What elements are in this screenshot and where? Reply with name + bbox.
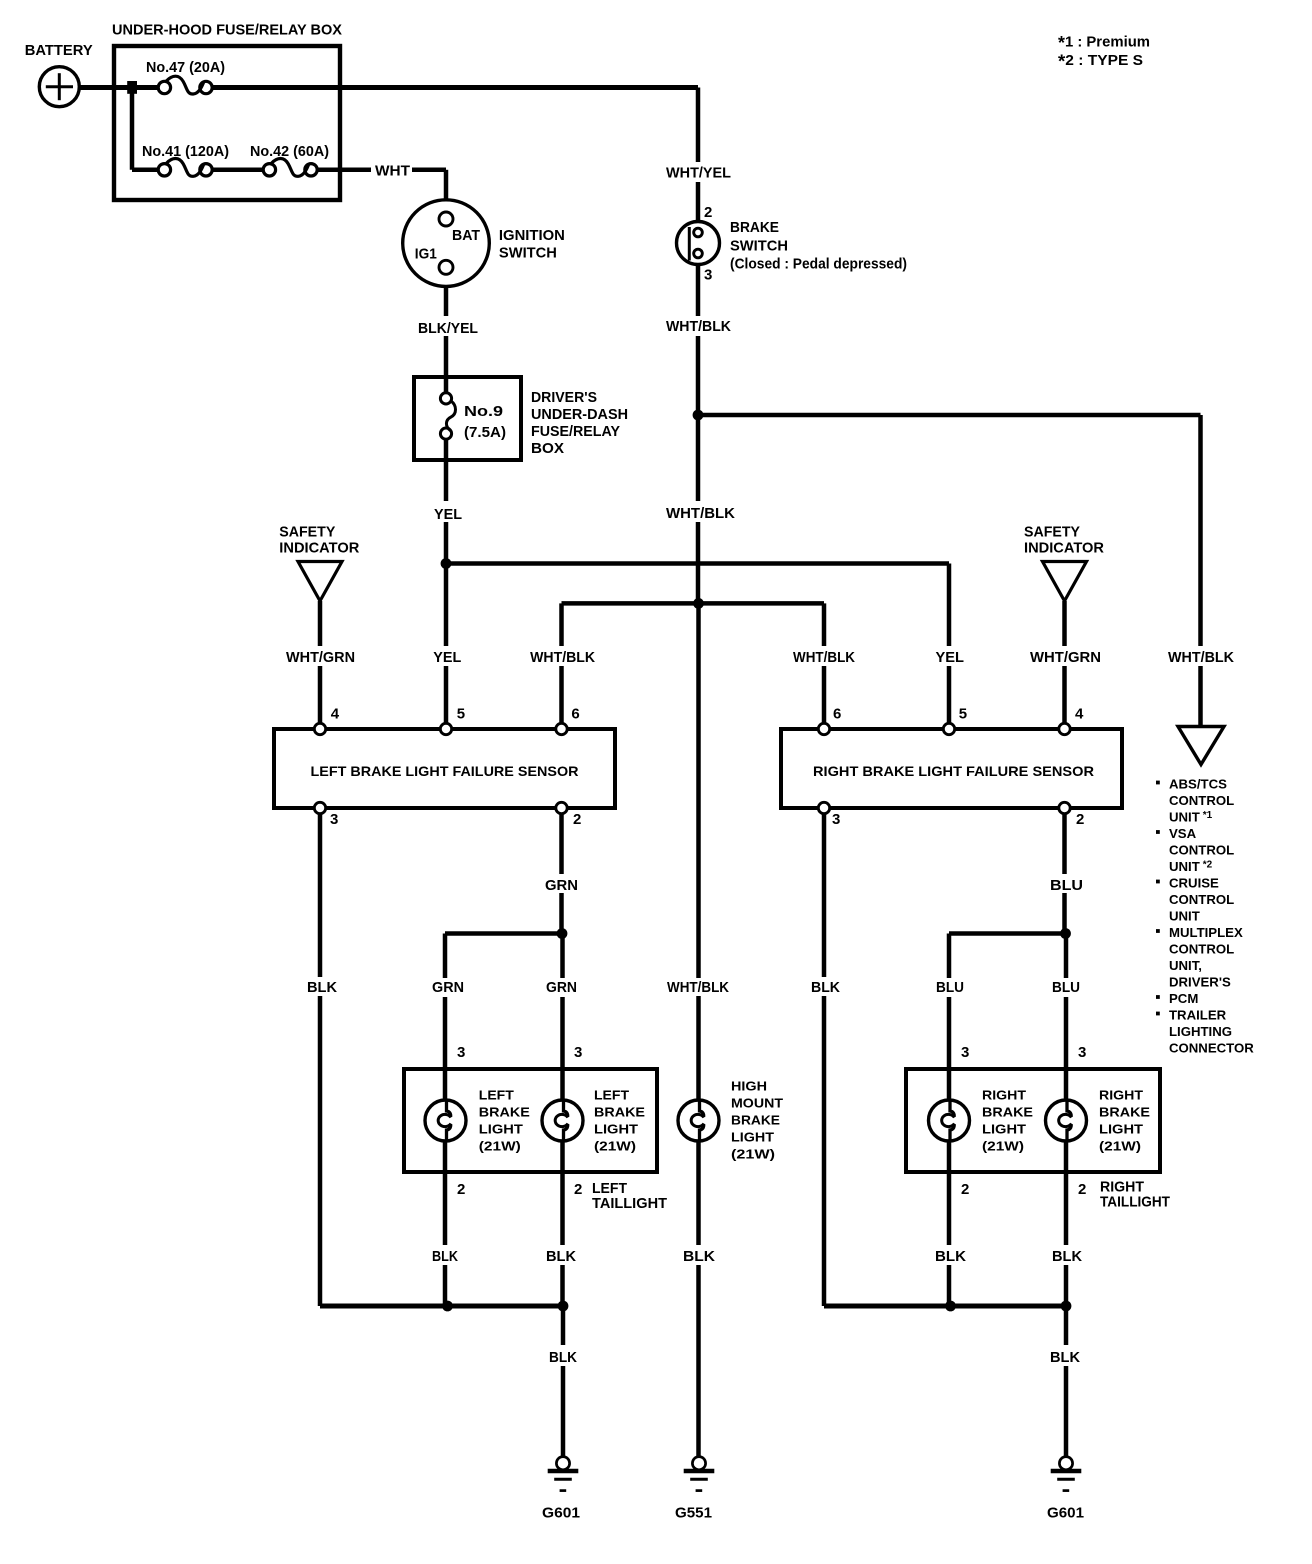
wire fuse No.41 to fuse No.42	[212, 168, 263, 173]
svg-text:LIGHT: LIGHT	[1099, 1122, 1143, 1137]
svg-text:CONTROL: CONTROL	[1169, 942, 1234, 957]
svg-text:RIGHT: RIGHT	[1099, 1088, 1143, 1103]
svg-text:TRAILER: TRAILER	[1169, 1008, 1227, 1023]
svg-text:BLK: BLK	[683, 1248, 715, 1265]
svg-text:BLK: BLK	[811, 979, 840, 996]
wire GRN left sensor pin 2	[559, 814, 564, 874]
svg-text:FUSE/RELAY: FUSE/RELAY	[531, 423, 620, 440]
svg-text:BLU: BLU	[1050, 877, 1083, 894]
svg-text:3: 3	[574, 1044, 582, 1061]
terminal pin 6 left	[556, 723, 567, 734]
ignition switch body	[403, 200, 490, 287]
wire ignition IG1 to under-dash box, BLK/YEL	[444, 286, 449, 316]
svg-text:UNDER-DASH: UNDER-DASH	[531, 406, 628, 423]
ignition terminal IG1	[439, 260, 453, 274]
wire BLK left lamp 1 down	[443, 1141, 448, 1245]
svg-text:2: 2	[961, 1181, 969, 1198]
terminal pin 3 left	[314, 802, 325, 813]
right brake light bulb 1 (21W)	[929, 1100, 970, 1141]
svg-text:WHT/BLK: WHT/BLK	[1168, 649, 1234, 666]
wire BLK left sensor pin 3 down	[318, 814, 323, 977]
wire WHT/GRN right	[1062, 601, 1067, 646]
under-hood fuse/relay box	[114, 46, 340, 200]
brake switch contact top	[694, 228, 703, 237]
svg-text:(21W): (21W)	[594, 1139, 636, 1154]
svg-text:3: 3	[330, 811, 338, 828]
left brake light bulb 2 (21W)	[542, 1100, 583, 1141]
ignition terminal BAT	[439, 212, 453, 226]
svg-text:BRAKE: BRAKE	[730, 219, 779, 236]
svg-text:WHT/GRN: WHT/GRN	[1030, 649, 1101, 666]
svg-text:2: 2	[457, 1181, 465, 1198]
svg-text:BLK: BLK	[549, 1349, 577, 1366]
svg-text:BOX: BOX	[531, 440, 564, 457]
svg-text:(21W): (21W)	[479, 1139, 521, 1154]
svg-text:2: 2	[1078, 1181, 1086, 1198]
svg-text:WHT/BLK: WHT/BLK	[793, 649, 855, 666]
svg-text:INDICATOR: INDICATOR	[279, 539, 359, 556]
junction BLU	[1060, 928, 1071, 939]
svg-text:4: 4	[331, 706, 340, 723]
svg-text:WHT/BLK: WHT/BLK	[667, 979, 729, 996]
svg-text:No.41 (120A): No.41 (120A)	[142, 143, 229, 160]
svg-text:*1 : Premium: *1 : Premium	[1058, 33, 1150, 53]
right taillight box	[906, 1069, 1160, 1172]
svg-text:BRAKE: BRAKE	[479, 1105, 530, 1120]
svg-text:3: 3	[961, 1044, 969, 1061]
wire BLK to ground G601 right	[1064, 1306, 1069, 1345]
svg-text:SAFETY: SAFETY	[1024, 523, 1080, 540]
driver's under-dash fuse/relay box	[414, 377, 521, 460]
svg-text:3: 3	[704, 267, 712, 284]
svg-text:No.9: No.9	[464, 403, 503, 420]
wire WHT/BLK branch left-right	[562, 601, 825, 606]
wire WHT/GRN left	[318, 601, 323, 646]
svg-text:2: 2	[1076, 811, 1084, 828]
svg-text:LEFT: LEFT	[479, 1088, 514, 1103]
svg-text:MOUNT: MOUNT	[731, 1095, 783, 1110]
terminal pin 4 left	[314, 723, 325, 734]
fuse No.47 20A	[158, 81, 170, 93]
svg-text:G601: G601	[1047, 1505, 1084, 1522]
svg-text:CONTROL: CONTROL	[1169, 892, 1234, 907]
wire BLU branch	[949, 931, 1066, 936]
wire YEL to right sensor pin 5	[947, 564, 952, 647]
svg-text:YEL: YEL	[433, 649, 461, 666]
svg-text:LIGHT: LIGHT	[594, 1122, 638, 1137]
wire BLU to right brake light 2	[1064, 934, 1069, 979]
svg-text:CONNECTOR: CONNECTOR	[1169, 1041, 1254, 1056]
ground G551	[684, 1457, 715, 1491]
svg-text:GRN: GRN	[545, 877, 578, 894]
svg-text:BRAKE: BRAKE	[982, 1105, 1033, 1120]
svg-text:WHT: WHT	[375, 163, 410, 180]
terminal pin 4 right	[1059, 723, 1070, 734]
terminal pin 5 left	[440, 723, 451, 734]
svg-text:(21W): (21W)	[982, 1139, 1024, 1154]
svg-text:TAILLIGHT: TAILLIGHT	[1100, 1193, 1170, 1210]
svg-text:YEL: YEL	[434, 506, 462, 523]
svg-text:WHT/BLK: WHT/BLK	[666, 505, 735, 522]
wire BLK high mount to ground	[696, 1141, 701, 1245]
svg-text:*2 : TYPE S: *2 : TYPE S	[1058, 51, 1143, 71]
wire BLK to ground G601 left	[561, 1306, 566, 1345]
wire BLU to right brake light 1	[947, 934, 952, 979]
wire into ignition switch BAT	[444, 170, 449, 200]
svg-text:4: 4	[1075, 706, 1084, 723]
svg-text:(21W): (21W)	[1099, 1139, 1141, 1154]
svg-text:DRIVER'S: DRIVER'S	[1169, 975, 1231, 990]
svg-text:6: 6	[833, 706, 841, 723]
wire GRN to left brake light 1	[443, 934, 448, 979]
junction YEL	[441, 558, 452, 569]
right brake light failure sensor box	[781, 729, 1122, 808]
svg-text:WHT/BLK: WHT/BLK	[666, 318, 731, 335]
svg-text:(7.5A): (7.5A)	[464, 424, 506, 441]
svg-text:RIGHT BRAKE LIGHT FAILURE SENS: RIGHT BRAKE LIGHT FAILURE SENSOR	[813, 764, 1094, 779]
svg-text:5: 5	[457, 706, 465, 723]
svg-text:GRN: GRN	[546, 979, 577, 996]
svg-text:IGNITION: IGNITION	[499, 227, 565, 244]
wire into fuse No.9	[444, 377, 449, 393]
svg-text:3: 3	[832, 811, 840, 828]
wire WHT/BLK to right sensor pin 6	[822, 603, 827, 646]
svg-text:LEFT: LEFT	[594, 1088, 629, 1103]
left brake light failure sensor box	[274, 729, 615, 808]
svg-text:2: 2	[574, 1181, 582, 1198]
junction BLK	[558, 1301, 569, 1312]
svg-text:WHT/BLK: WHT/BLK	[530, 649, 595, 666]
brake switch body	[677, 222, 720, 265]
junction BLK	[442, 1301, 453, 1312]
wire BLK left lamp 2 down	[560, 1141, 565, 1245]
svg-text:CONTROL: CONTROL	[1169, 793, 1234, 808]
wire BLK right lamp 1 down	[947, 1141, 952, 1245]
svg-text:SWITCH: SWITCH	[499, 244, 557, 261]
terminal pin 5 right	[943, 723, 954, 734]
svg-text:LIGHT: LIGHT	[731, 1129, 774, 1144]
svg-text:BRAKE: BRAKE	[594, 1105, 645, 1120]
right brake light bulb 2 (21W)	[1046, 1100, 1087, 1141]
high mount brake light bulb (21W)	[678, 1100, 719, 1141]
terminal pin 3 right	[818, 802, 829, 813]
svg-text:LIGHT: LIGHT	[982, 1122, 1026, 1137]
wire YEL fuse No.9 down to sensor pin 5	[444, 439, 449, 501]
wire to fuse No.41	[132, 168, 158, 173]
fuse No.42 60A	[263, 164, 275, 176]
terminal pin 2 left	[556, 802, 567, 813]
svg-text:2: 2	[573, 811, 581, 828]
svg-text:2: 2	[704, 204, 712, 221]
svg-text:BLK: BLK	[307, 979, 337, 996]
wire WHT/BLK down	[696, 415, 701, 501]
wire fuse No.42 to WHT label	[317, 168, 371, 173]
svg-text:BLK: BLK	[432, 1248, 458, 1265]
left brake light bulb 1 (21W)	[425, 1100, 466, 1141]
terminal pin 6 right	[818, 723, 829, 734]
battery B+ terminal	[39, 67, 79, 107]
svg-text:WHT/GRN: WHT/GRN	[286, 649, 355, 666]
svg-text:G601: G601	[542, 1505, 580, 1522]
junction GRN	[557, 928, 568, 939]
wire BLU right sensor pin 2	[1062, 814, 1067, 874]
wire WHT/BLK branch to control units	[698, 413, 1201, 418]
svg-text:(Closed : Pedal depressed): (Closed : Pedal depressed)	[730, 256, 907, 273]
svg-text:BLK: BLK	[546, 1248, 576, 1265]
svg-text:BLK/YEL: BLK/YEL	[418, 320, 478, 337]
junction WHT/BLK spread	[693, 598, 704, 609]
svg-text:HIGH: HIGH	[731, 1078, 767, 1093]
svg-text:(21W): (21W)	[731, 1146, 775, 1161]
safety indicator left	[298, 562, 342, 602]
junction BLK	[945, 1301, 956, 1312]
wire BLK left ground bus	[320, 1304, 563, 1309]
left taillight box	[404, 1069, 657, 1172]
svg-text:LEFT BRAKE LIGHT FAILURE SENSO: LEFT BRAKE LIGHT FAILURE SENSOR	[311, 764, 579, 779]
node list: connected control units	[1156, 777, 1254, 1056]
wire GRN branch	[445, 931, 562, 936]
fuse No.9 7.5A	[440, 393, 451, 404]
svg-text:BLK: BLK	[935, 1248, 966, 1265]
svg-text:BLK: BLK	[1050, 1349, 1080, 1366]
svg-text:MULTIPLEX: MULTIPLEX	[1169, 925, 1243, 940]
fuse No.41 120A	[158, 164, 170, 176]
svg-text:5: 5	[959, 706, 967, 723]
svg-text:GRN: GRN	[432, 979, 464, 996]
svg-text:IG1: IG1	[415, 245, 437, 262]
svg-text:LIGHTING: LIGHTING	[1169, 1024, 1232, 1039]
svg-text:3: 3	[457, 1044, 465, 1061]
wire WHT/BLK to left sensor pin 6	[559, 603, 564, 646]
svg-text:LIGHT: LIGHT	[479, 1122, 523, 1137]
wire WHT/YEL battery feed to brake switch	[696, 88, 701, 163]
svg-text:UNIT,: UNIT,	[1169, 958, 1202, 973]
wire WHT to ignition switch	[412, 168, 446, 173]
svg-text:G551: G551	[675, 1505, 712, 1522]
wire junction down to No.41	[130, 88, 135, 170]
ground G601 left	[548, 1457, 579, 1491]
svg-text:No.47 (20A): No.47 (20A)	[146, 59, 225, 76]
wire fuse No.47 to brake switch drop	[212, 85, 698, 90]
svg-text:BAT: BAT	[452, 227, 480, 244]
svg-text:PCM: PCM	[1169, 991, 1198, 1006]
wire BLK right ground bus	[824, 1304, 1066, 1309]
svg-text:3: 3	[1078, 1044, 1086, 1061]
wire battery to fuse No.47	[79, 85, 158, 90]
wire WHT/BLK down to high mount lamp	[696, 603, 701, 978]
svg-text:INDICATOR: INDICATOR	[1024, 539, 1104, 556]
wire BLK right sensor pin 3 down	[822, 814, 827, 977]
svg-text:BRAKE: BRAKE	[731, 1112, 780, 1127]
svg-text:CONTROL: CONTROL	[1169, 843, 1234, 858]
connector arrow to control units	[1178, 727, 1224, 765]
wire WHT/BLK to control units arrow	[1198, 415, 1203, 646]
ground G601 right	[1051, 1457, 1082, 1491]
safety indicator right	[1043, 562, 1087, 602]
svg-text:TAILLIGHT: TAILLIGHT	[592, 1195, 667, 1212]
svg-text:6: 6	[571, 706, 579, 723]
svg-text:RIGHT: RIGHT	[982, 1088, 1026, 1103]
brake switch contact bottom	[694, 249, 703, 258]
svg-text:BLK: BLK	[1052, 1248, 1082, 1265]
svg-text:BRAKE: BRAKE	[1099, 1105, 1150, 1120]
svg-text:ABS/TCS: ABS/TCS	[1169, 777, 1227, 792]
junction BLK	[1061, 1301, 1072, 1312]
junction battery feed	[127, 81, 137, 94]
wire brake switch to junction, WHT/BLK	[696, 265, 701, 317]
junction WHT/BLK	[693, 410, 704, 421]
svg-text:UNIT: UNIT	[1169, 909, 1200, 924]
wire GRN to left brake light 2	[560, 934, 565, 979]
svg-text:BLU: BLU	[936, 979, 964, 996]
svg-text:No.42 (60A): No.42 (60A)	[250, 143, 329, 160]
svg-text:BATTERY: BATTERY	[25, 42, 93, 59]
wire BLK right lamp 2 down	[1064, 1141, 1069, 1245]
svg-text:DRIVER'S: DRIVER'S	[531, 389, 597, 406]
terminal pin 2 right	[1059, 802, 1070, 813]
svg-text:YEL: YEL	[936, 649, 965, 666]
wire YEL branch to right sensor	[446, 561, 949, 566]
svg-text:CRUISE: CRUISE	[1169, 876, 1219, 891]
svg-text:WHT/YEL: WHT/YEL	[666, 165, 731, 182]
svg-text:SWITCH: SWITCH	[730, 237, 788, 254]
svg-text:VSA: VSA	[1169, 826, 1197, 841]
svg-text:UNDER-HOOD FUSE/RELAY BOX: UNDER-HOOD FUSE/RELAY BOX	[112, 22, 342, 39]
svg-text:BLU: BLU	[1052, 979, 1080, 996]
svg-text:SAFETY: SAFETY	[279, 523, 335, 540]
